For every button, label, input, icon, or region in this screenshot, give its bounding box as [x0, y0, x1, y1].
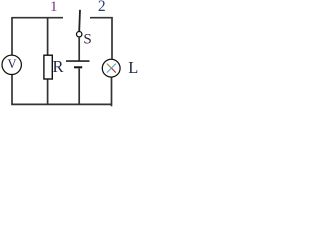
wire top-right segment (terminal 2 to lamp) — [90, 18, 112, 59]
battery positive plate (long) — [66, 60, 90, 62]
wire top-left segment (terminal 1 side) — [12, 17, 63, 19]
svg-text:R: R — [53, 57, 65, 76]
battery negative plate (short) — [74, 66, 82, 68]
wire left vertical — [11, 17, 13, 105]
svg-text:1: 1 — [50, 0, 58, 15]
svg-text:2: 2 — [98, 0, 106, 15]
resistor R body — [44, 55, 52, 79]
lamp X stroke backslash — [107, 64, 112, 69]
lamp X stroke slash — [107, 64, 116, 73]
wire resistor branch — [47, 18, 49, 105]
wire switch to battery — [78, 37, 80, 61]
voltmeter V1 circle — [2, 55, 21, 74]
switch S pivot circle — [77, 32, 82, 37]
svg-text:V: V — [7, 57, 16, 71]
wire bottom — [11, 103, 112, 105]
wire lamp to bottom — [111, 77, 113, 106]
lamp L circle — [102, 59, 120, 77]
switch S blade — [78, 10, 81, 32]
svg-text:S: S — [83, 31, 91, 47]
svg-text:L: L — [128, 58, 138, 77]
wire battery to bottom — [78, 69, 80, 105]
